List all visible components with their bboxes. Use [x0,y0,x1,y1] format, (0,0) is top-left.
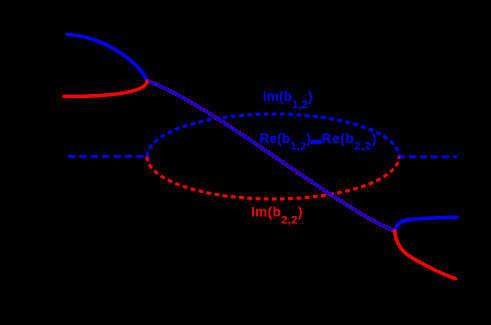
equals bar between labels [311,140,322,144]
red solid lower-left branch [64,81,147,96]
dashed horizontal line left segment (Im=0) [68,155,146,158]
red solid right branch [395,231,456,279]
dashed horizontal line right segment (Im=0) [398,155,457,158]
blue solid right branch [395,217,457,231]
diagonal Re(b1,2)=Re(b2,2) red underlay [147,81,395,231]
blue solid upper-left branch [67,35,147,82]
ellipse top arc Im(b1,2) dashed blue [147,114,399,157]
ellipse bottom arc Im(b2,2) dashed red [147,157,399,200]
diagonal Re(b1,2)=Re(b2,2) blue overlay [147,81,395,231]
